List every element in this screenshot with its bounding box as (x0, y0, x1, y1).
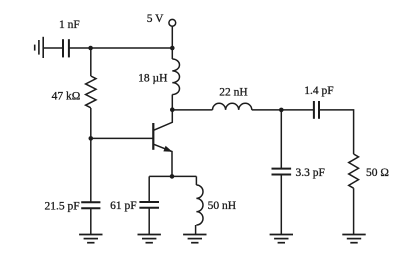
wire L-50nH to ground (195, 225, 197, 235)
wire R-47k to node F (90, 108, 92, 138)
wire node B to L-18uH (171, 48, 173, 59)
capacitor 21.5 pF (81, 202, 100, 208)
wire R-50 to ground (353, 188, 355, 234)
wire input ground to C-1nF (43, 47, 62, 49)
wire C-21.5pF to ground (90, 208, 92, 234)
capacitor 1 nF (63, 39, 69, 57)
svg-text:50 nH: 50 nH (208, 200, 236, 212)
wire 5V terminal to node B (171, 26, 173, 48)
wire node D to C-1.4pF (281, 109, 313, 111)
node B junction (170, 46, 175, 51)
capacitor 61 pF (139, 202, 159, 208)
svg-text:21.5 pF: 21.5 pF (45, 201, 80, 213)
power terminal 5 V (169, 19, 176, 26)
wire node F down to C-21.5pF (90, 138, 92, 202)
wire node A down to R-47k (90, 48, 92, 76)
ground (below 3.3 pF) (270, 235, 293, 243)
transistor Q1 (153, 112, 172, 177)
wire down to C-61pF (148, 176, 150, 201)
wire node C to L-22nH (172, 109, 212, 111)
inductor 18 uH (172, 59, 179, 95)
svg-text:61 pF: 61 pF (110, 200, 137, 212)
ground (below 50 nH) (183, 235, 206, 243)
ground (input, left-facing) (35, 37, 44, 58)
wire C-61pF to ground (148, 208, 150, 235)
svg-text:18 µH: 18 µH (138, 73, 167, 85)
svg-text:1.4 pF: 1.4 pF (304, 85, 333, 97)
wire C-1.4pF to R-50 corner (319, 110, 354, 154)
node D junction (279, 108, 284, 113)
wire L-22nH to node D (252, 109, 281, 111)
node F junction (89, 136, 94, 141)
capacitor 1.4 pF (314, 101, 319, 119)
svg-text:47 kΩ: 47 kΩ (52, 91, 81, 103)
wire node F to Q1 base (91, 137, 154, 139)
resistor 47 kOhm (86, 76, 96, 108)
wire node A to node B (91, 47, 173, 49)
svg-text:3.3 pF: 3.3 pF (295, 167, 324, 179)
resistor 50 Ohm (349, 154, 359, 188)
svg-text:5 V: 5 V (147, 13, 164, 25)
ground (below 61 pF) (138, 235, 161, 243)
inductor 22 nH (213, 103, 252, 110)
svg-text:22 nH: 22 nH (219, 87, 247, 99)
node A junction (88, 46, 93, 51)
wire node E horizontal (149, 175, 196, 177)
capacitor 3.3 pF (272, 169, 292, 175)
wire C-1nF to node A (69, 47, 91, 49)
wire L-18uH to node C (171, 95, 173, 110)
ground (below 50 Ohm) (342, 235, 365, 243)
svg-text:1 nF: 1 nF (59, 19, 80, 31)
svg-text:50 Ω: 50 Ω (366, 167, 389, 179)
node C junction (170, 107, 175, 112)
ground (below 21.5 pF) (79, 235, 102, 243)
node E junction (170, 174, 175, 179)
wire node D down to C-3.3pF (280, 110, 282, 168)
inductor 50 nH (196, 185, 203, 225)
wire C-3.3pF to ground (280, 175, 282, 235)
wire node E to L-50nH (195, 176, 197, 185)
